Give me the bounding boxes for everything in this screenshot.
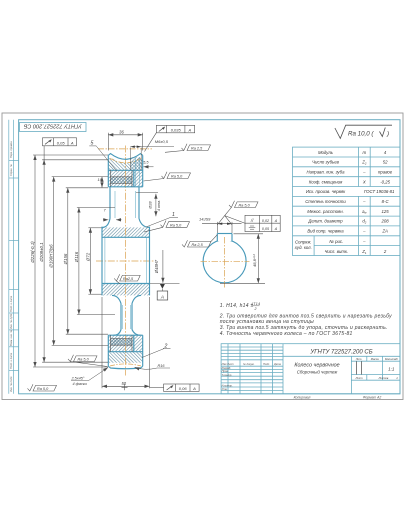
svg-text:Ra2,5: Ra2,5	[123, 277, 134, 281]
svg-text:Справ. №: Справ. №	[9, 164, 13, 176]
svg-text:Ra 10,0 (: Ra 10,0 (	[348, 131, 374, 138]
svg-text:Ø226(-0,1): Ø226(-0,1)	[30, 241, 35, 264]
svg-text:Перв. примен.: Перв. примен.	[9, 140, 13, 158]
svg-text:А: А	[274, 227, 278, 231]
svg-text:2: 2	[254, 307, 257, 311]
svg-text:Делит. диаметр: Делит. диаметр	[307, 219, 343, 224]
svg-text:1. Н14, h14 ±: 1. Н14, h14 ±	[220, 303, 254, 309]
svg-text:d2: d2	[362, 219, 366, 225]
svg-text:Колесо червячное: Колесо червячное	[294, 363, 339, 369]
svg-text:ZA: ZA	[381, 229, 388, 234]
svg-text:Инв. № подл.: Инв. № подл.	[9, 376, 13, 392]
svg-text:IT14: IT14	[252, 302, 260, 306]
svg-text:Ø156: Ø156	[63, 253, 68, 265]
svg-text:Изм Лист: Изм Лист	[222, 362, 235, 366]
svg-text:Лит.: Лит.	[355, 357, 363, 361]
svg-text:R16: R16	[158, 364, 166, 368]
svg-text:Подп.: Подп.	[263, 362, 270, 366]
svg-text:Масштаб: Масштаб	[385, 357, 398, 361]
svg-text:Исх. произв. червяк: Исх. произв. червяк	[306, 189, 346, 194]
svg-text:Взам. инв. №: Взам. инв. №	[9, 330, 13, 346]
svg-text:М6х0,5: М6х0,5	[155, 139, 169, 144]
svg-text:Н.контр.: Н.контр.	[222, 384, 233, 388]
svg-text:А: А	[160, 294, 164, 299]
svg-text:Копировал: Копировал	[294, 395, 311, 399]
svg-text:36: 36	[119, 130, 124, 135]
svg-text:правое: правое	[378, 170, 393, 175]
svg-text:1:1: 1:1	[388, 366, 395, 371]
svg-text:№ рис.: № рис.	[329, 239, 343, 244]
svg-text:Ra 2,5: Ra 2,5	[192, 243, 204, 247]
svg-text:после установки венца на ступи: после установки венца на ступицы	[220, 319, 314, 325]
svg-text:Масса: Масса	[371, 357, 379, 361]
svg-text:Т.контр.: Т.контр.	[222, 373, 233, 377]
svg-text:Подп. и дата: Подп. и дата	[9, 352, 13, 369]
svg-text:Ra 5,0: Ra 5,0	[170, 223, 182, 227]
svg-text:Сопряж.: Сопряж.	[295, 240, 312, 245]
svg-text:Межос. расстоян.: Межос. расстоян.	[307, 209, 344, 214]
svg-text:ГОСТ 19036-81: ГОСТ 19036-81	[364, 189, 395, 194]
svg-text:УГНТУ 722527.200 СБ: УГНТУ 722527.200 СБ	[309, 350, 372, 356]
svg-text:А: А	[274, 219, 278, 223]
svg-text:5,5: 5,5	[143, 161, 149, 165]
svg-text:-0,25: -0,25	[380, 179, 390, 184]
svg-text:0,035: 0,035	[171, 127, 182, 132]
svg-text:А: А	[192, 386, 196, 391]
svg-text:Степень точности: Степень точности	[305, 199, 346, 204]
svg-text:Вид сопр. червяка: Вид сопр. червяка	[307, 229, 344, 234]
svg-text:0,02: 0,02	[262, 219, 269, 223]
svg-text:Формат А2: Формат А2	[363, 395, 382, 399]
svg-text:4. Точность червячного колеса: 4. Точность червячного колеса – по ГОСТ …	[220, 331, 353, 337]
svg-text:Число зубьев: Число зубьев	[312, 160, 340, 165]
svg-text:): )	[386, 131, 389, 138]
svg-text:А: А	[187, 127, 191, 132]
svg-text:X: X	[362, 179, 366, 184]
svg-text:0,05: 0,05	[57, 140, 66, 145]
svg-text:Модуль: Модуль	[318, 150, 334, 155]
svg-text:Ra 2,5: Ra 2,5	[191, 147, 203, 151]
svg-text:208: 208	[381, 219, 390, 224]
svg-text:50: 50	[121, 381, 126, 386]
svg-text:Ra 5,0: Ra 5,0	[239, 204, 251, 208]
svg-text:Ra 5,0: Ra 5,0	[37, 387, 49, 391]
svg-text:14JS9: 14JS9	[199, 217, 211, 222]
svg-text:Инв. № дубл.: Инв. № дубл.	[9, 313, 13, 329]
svg-text:Ra 5,0: Ra 5,0	[171, 175, 183, 179]
svg-text:Подп. и дата: Подп. и дата	[9, 295, 13, 312]
svg-text:Сборочный чертеж: Сборочный чертеж	[297, 369, 339, 374]
svg-text:Дата: Дата	[273, 362, 281, 366]
svg-text:Пров.: Пров.	[222, 369, 229, 373]
svg-text:4 отв.: 4 отв.	[157, 200, 161, 211]
svg-text:125: 125	[382, 209, 390, 214]
svg-text:Ø208±0,1: Ø208±0,1	[39, 242, 44, 263]
svg-text:2,5х45°: 2,5х45°	[71, 376, 85, 380]
svg-text:Утв.: Утв.	[222, 387, 228, 391]
svg-text:Z1: Z1	[361, 249, 367, 255]
svg-text:Ø116: Ø116	[74, 251, 79, 263]
svg-text:Листов: Листов	[378, 376, 389, 380]
svg-text:УГНТУ 722527.200 СБ: УГНТУ 722527.200 СБ	[23, 123, 82, 129]
svg-text:Ra 5,0: Ra 5,0	[78, 358, 90, 362]
svg-text:Коэф. смещения: Коэф. смещения	[309, 179, 343, 184]
svg-text:Направл. лин. зуба: Направл. лин. зуба	[307, 170, 346, 175]
svg-text:0,05: 0,05	[262, 227, 270, 231]
svg-text:52: 52	[383, 160, 388, 165]
svg-text:Ø72: Ø72	[85, 252, 90, 262]
svg-text:8-С: 8-С	[382, 199, 390, 204]
svg-text:0,06: 0,06	[179, 386, 188, 391]
svg-text:Z2: Z2	[361, 160, 367, 166]
svg-text:Числ. витк.: Числ. витк.	[324, 249, 348, 254]
svg-text:m: m	[363, 150, 367, 155]
svg-text:Лист: Лист	[355, 376, 364, 380]
svg-text:худ. кол.: худ. кол.	[294, 245, 312, 250]
svg-text:№ докум.: № докум.	[243, 362, 255, 366]
svg-text:4 фаски: 4 фаски	[73, 382, 88, 386]
svg-text:А: А	[70, 140, 74, 145]
svg-text:Ø190H7/js6: Ø190H7/js6	[49, 244, 54, 269]
svg-text:Ø28: Ø28	[149, 201, 153, 210]
svg-text:Ø48H7: Ø48H7	[154, 259, 159, 274]
